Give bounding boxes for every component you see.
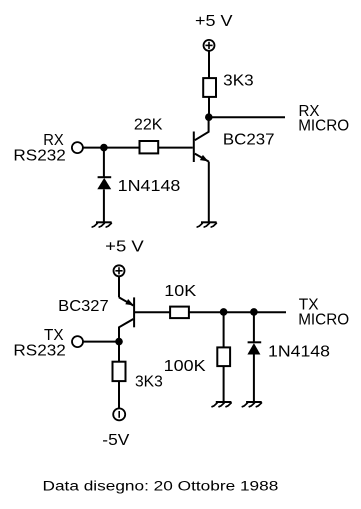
- svg-text:-5V: -5V: [102, 432, 130, 449]
- wire: TX terminal to collector node: [83, 341, 119, 343]
- svg-text:RX: RX: [43, 132, 64, 149]
- node: collector junction (Q2): [115, 338, 123, 346]
- svg-text:3K3: 3K3: [135, 373, 163, 390]
- transistor Q2 BC327 (PNP, mirrored): [119, 297, 134, 341]
- label RX RS232: [13, 132, 65, 165]
- svg-text:BC327: BC327: [58, 298, 108, 315]
- svg-text:10K: 10K: [164, 283, 197, 300]
- svg-text:Data disegno: 20 Ottobre 1988: Data disegno: 20 Ottobre 1988: [43, 478, 279, 494]
- wire: D2 node down to D2: [253, 312, 255, 342]
- svg-text:+5 V: +5 V: [105, 238, 144, 255]
- svg-text:3K3: 3K3: [223, 73, 254, 90]
- wire: node to R5: [118, 342, 120, 362]
- +5V power terminal (top): [204, 40, 215, 51]
- node: R4 junction: [220, 308, 228, 316]
- wire: D2 anode to ground: [253, 355, 255, 403]
- svg-text:RS232: RS232: [13, 148, 65, 165]
- svg-text:TX: TX: [44, 327, 64, 344]
- label TX RS232: [13, 327, 65, 360]
- node: D2 junction: [250, 308, 258, 316]
- wire: R2 to base of Q1: [158, 147, 193, 149]
- wire: RX terminal to diode node: [83, 147, 104, 149]
- diode D2 1N4148 (cathode up): [247, 342, 261, 354]
- svg-text:MICRO: MICRO: [298, 117, 349, 134]
- node: collector junction: [205, 113, 213, 121]
- wire: R3 to TX MICRO: [189, 311, 286, 313]
- +5V power terminal (bottom circuit): [114, 265, 125, 276]
- wire: D1 anode to ground: [103, 189, 105, 222]
- ground (D1): [92, 222, 111, 227]
- wire: R4 to ground: [223, 366, 225, 402]
- resistor R2 22K: [140, 141, 159, 153]
- svg-text:RS232: RS232: [13, 343, 65, 360]
- wire: collector node to RX MICRO: [209, 116, 285, 118]
- ground (R4): [212, 402, 231, 407]
- label RX MICRO: [298, 103, 349, 135]
- wire: Q1 emitter to ground: [208, 162, 210, 223]
- resistor R1 3K3: [203, 78, 216, 97]
- label TX MICRO: [298, 297, 349, 329]
- input terminal TX RS232: [72, 336, 83, 347]
- transistor Q1 BC237 (NPN): [194, 117, 209, 162]
- resistor R4 100K: [217, 347, 230, 366]
- svg-text:BC237: BC237: [223, 131, 275, 148]
- wire: R4 node down to R4: [223, 312, 225, 348]
- -5V power terminal: [113, 408, 125, 420]
- svg-text:22K: 22K: [134, 117, 163, 134]
- svg-text:1N4148: 1N4148: [268, 343, 330, 360]
- diode D1 1N4148 (cathode up): [97, 177, 111, 189]
- wire: R1 to collector node: [208, 97, 210, 117]
- input terminal RX RS232: [72, 142, 83, 153]
- ground (D2): [242, 402, 261, 407]
- wire: +5V terminal to resistor R1: [208, 51, 210, 78]
- wire: R5 to -5V terminal: [118, 381, 120, 408]
- svg-text:MICRO: MICRO: [298, 311, 349, 328]
- wire: diode node down to D1: [103, 148, 105, 178]
- ground (Q1 emitter): [197, 222, 216, 227]
- resistor R3 10K: [170, 307, 189, 319]
- wire: node to R2: [104, 147, 140, 149]
- svg-text:100K: 100K: [164, 358, 207, 375]
- wire: Q2 base to R3: [134, 311, 170, 313]
- svg-text:1N4148: 1N4148: [118, 178, 181, 195]
- svg-text:+5 V: +5 V: [195, 13, 233, 30]
- wire: +5V terminal to Q2 emitter: [118, 276, 120, 297]
- node: base/diode junction: [100, 144, 108, 152]
- resistor R5 3K3 (bottom): [113, 362, 126, 381]
